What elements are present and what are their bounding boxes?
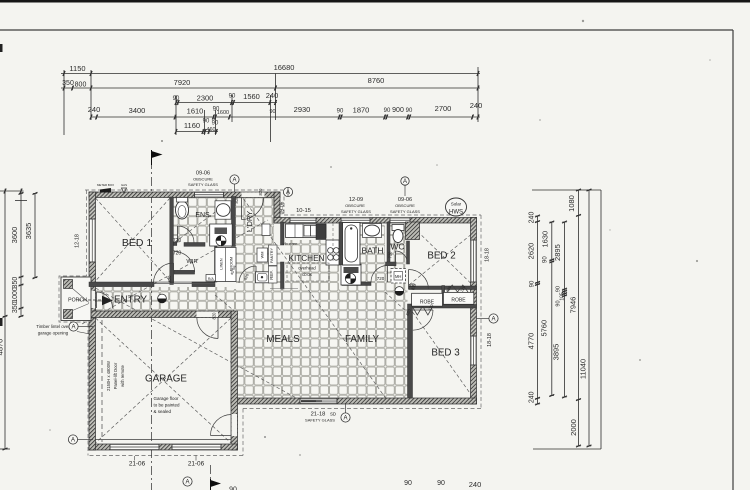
svg-text:90: 90 <box>173 96 180 102</box>
svg-text:09-06: 09-06 <box>280 201 286 214</box>
svg-text:5760: 5760 <box>539 320 548 337</box>
svg-text:90: 90 <box>437 480 445 487</box>
svg-text:SAFETY GLASS: SAFETY GLASS <box>390 209 420 214</box>
svg-text:240: 240 <box>469 480 482 489</box>
svg-text:720: 720 <box>173 238 182 244</box>
svg-text:WC: WC <box>390 242 404 252</box>
svg-text:overhead: overhead <box>298 266 316 271</box>
svg-text:A: A <box>232 178 236 184</box>
svg-text:MEALS: MEALS <box>266 334 300 345</box>
svg-text:SAFETY GLASS: SAFETY GLASS <box>305 418 335 423</box>
svg-text:BED 3: BED 3 <box>431 348 460 359</box>
svg-text:Timber lintel over: Timber lintel over <box>36 324 70 329</box>
svg-text:720: 720 <box>173 251 182 257</box>
svg-text:GAS: GAS <box>121 183 127 187</box>
svg-text:18-18: 18-18 <box>487 333 493 347</box>
svg-text:2895: 2895 <box>553 244 562 261</box>
svg-text:2930: 2930 <box>294 105 311 114</box>
svg-text:OBSCURE: OBSCURE <box>345 203 365 208</box>
svg-text:HWS: HWS <box>449 210 463 216</box>
svg-text:2700: 2700 <box>435 104 452 113</box>
svg-text:SAFETY GLASS: SAFETY GLASS <box>188 182 218 187</box>
svg-text:11040: 11040 <box>579 359 588 379</box>
svg-text:90: 90 <box>543 256 549 263</box>
svg-text:8760: 8760 <box>368 76 385 85</box>
svg-text:1000: 1000 <box>12 287 19 303</box>
svg-text:820: 820 <box>409 283 417 288</box>
svg-text:WIR: WIR <box>186 259 197 265</box>
svg-text:3600: 3600 <box>10 227 19 244</box>
svg-text:A: A <box>71 325 75 331</box>
svg-text:1630: 1630 <box>540 231 549 248</box>
svg-text:350: 350 <box>12 301 19 313</box>
svg-text:OBSCURE: OBSCURE <box>395 203 415 208</box>
svg-text:90: 90 <box>384 108 391 114</box>
svg-text:21-06: 21-06 <box>129 461 146 468</box>
svg-text:BED 2: BED 2 <box>427 251 455 262</box>
svg-text:2150H x 4800W: 2150H x 4800W <box>106 361 111 391</box>
svg-text:Garage floor: Garage floor <box>154 396 180 401</box>
svg-text:2620: 2620 <box>527 243 536 260</box>
svg-text:REF.: REF. <box>269 270 274 280</box>
svg-text:90: 90 <box>556 300 562 306</box>
svg-text:2000: 2000 <box>569 419 578 436</box>
svg-text:16680: 16680 <box>274 63 295 72</box>
svg-text:12-18: 12-18 <box>75 234 81 248</box>
svg-text:350: 350 <box>12 277 19 289</box>
svg-text:to be painted: to be painted <box>154 403 181 408</box>
svg-text:1610: 1610 <box>187 107 204 116</box>
svg-text:240: 240 <box>266 91 279 100</box>
svg-text:90: 90 <box>337 109 344 115</box>
svg-text:1160: 1160 <box>184 121 200 130</box>
svg-text:A: A <box>185 480 189 486</box>
svg-text:PANTRY: PANTRY <box>270 248 274 264</box>
svg-text:METER BOX: METER BOX <box>97 183 114 187</box>
svg-text:900: 900 <box>392 107 404 114</box>
svg-text:garage opening: garage opening <box>38 331 69 336</box>
svg-text:21-06: 21-06 <box>188 461 205 468</box>
svg-text:ENTRY: ENTRY <box>114 295 147 306</box>
svg-text:90: 90 <box>404 480 412 487</box>
svg-text:L'DRY: L'DRY <box>245 211 254 232</box>
svg-text:460: 460 <box>206 127 215 133</box>
svg-text:1150: 1150 <box>69 64 85 73</box>
svg-text:18-18: 18-18 <box>485 248 491 262</box>
svg-text:820: 820 <box>234 196 239 204</box>
svg-text:90: 90 <box>556 286 562 292</box>
svg-text:350: 350 <box>62 80 74 87</box>
svg-text:BATH: BATH <box>361 246 383 256</box>
svg-text:720: 720 <box>377 276 385 281</box>
svg-text:3895: 3895 <box>552 344 561 361</box>
svg-text:1560: 1560 <box>243 92 260 101</box>
svg-text:LINEN: LINEN <box>219 258 223 269</box>
svg-text:ROBE: ROBE <box>420 299 435 305</box>
svg-text:240: 240 <box>88 105 101 114</box>
svg-text:MH: MH <box>395 274 402 279</box>
svg-text:90: 90 <box>269 109 275 115</box>
svg-text:90: 90 <box>229 94 236 100</box>
svg-text:4870: 4870 <box>0 339 5 356</box>
svg-text:cb'ds: cb'ds <box>302 272 312 277</box>
svg-text:7946: 7946 <box>569 297 578 314</box>
svg-text:OBSCURE: OBSCURE <box>193 177 213 182</box>
svg-text:1870: 1870 <box>353 106 370 115</box>
svg-text:1600: 1600 <box>217 110 229 116</box>
svg-text:10-15: 10-15 <box>296 208 311 214</box>
svg-text:90: 90 <box>229 487 237 490</box>
svg-text:BED 1: BED 1 <box>122 237 153 249</box>
svg-text:KITCHEN: KITCHEN <box>289 254 325 263</box>
svg-text:with remote: with remote <box>120 365 125 387</box>
svg-text:240: 240 <box>470 101 483 110</box>
svg-text:820: 820 <box>258 188 263 196</box>
svg-text:105: 105 <box>560 292 566 301</box>
svg-text:& sealed: & sealed <box>154 409 172 414</box>
svg-text:820: 820 <box>167 275 172 283</box>
svg-text:A: A <box>71 438 75 444</box>
svg-text:A: A <box>403 179 407 185</box>
svg-text:SAFETY GLASS: SAFETY GLASS <box>341 209 371 214</box>
svg-text:SD: SD <box>330 412 336 417</box>
svg-text:A: A <box>491 317 495 323</box>
svg-text:1080: 1080 <box>567 195 576 212</box>
svg-text:720: 720 <box>388 251 393 259</box>
svg-text:GARAGE: GARAGE <box>145 374 187 385</box>
svg-text:v'b oven: v'b oven <box>283 241 298 246</box>
svg-text:PORCH: PORCH <box>68 298 87 304</box>
svg-text:4770: 4770 <box>527 333 536 350</box>
svg-text:ROBE: ROBE <box>451 297 466 303</box>
svg-text:2300: 2300 <box>197 94 214 103</box>
svg-text:3635: 3635 <box>24 223 33 240</box>
svg-text:3400: 3400 <box>129 106 146 115</box>
svg-text:FAMILY: FAMILY <box>345 334 380 345</box>
svg-text:7920: 7920 <box>174 78 191 87</box>
svg-text:90: 90 <box>406 108 413 114</box>
svg-text:800: 800 <box>75 82 87 89</box>
svg-text:ENS.: ENS. <box>195 212 211 219</box>
svg-text:90: 90 <box>530 280 536 287</box>
svg-text:Solar: Solar <box>451 202 462 207</box>
svg-text:90: 90 <box>203 119 210 125</box>
svg-text:820: 820 <box>212 312 217 320</box>
svg-text:A: A <box>343 416 347 422</box>
svg-text:WM: WM <box>261 252 265 259</box>
svg-text:Panel-lift Door: Panel-lift Door <box>113 362 118 389</box>
svg-text:90: 90 <box>212 121 219 127</box>
svg-text:240: 240 <box>529 212 536 224</box>
svg-text:240: 240 <box>529 391 536 403</box>
svg-text:R/A: R/A <box>208 277 215 281</box>
